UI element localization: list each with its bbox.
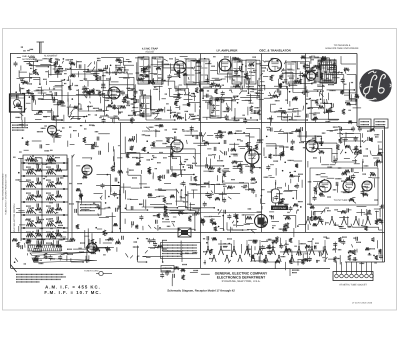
svg-text:ELECTRONICS DEPARTMENT: ELECTRONICS DEPARTMENT <box>217 276 266 280</box>
component value labels mid band <box>152 157 155 158</box>
power input components <box>317 84 322 86</box>
metal tube socket pins <box>306 218 309 225</box>
svg-text:Schematic Diagram, Receptor Mo: Schematic Diagram, Receptor Model 17 thr… <box>167 289 235 293</box>
wire right main bus <box>384 127 386 263</box>
rectifier tube dark anode <box>258 218 265 225</box>
transformer T10 <box>140 96 151 116</box>
transformer T4 <box>199 59 209 84</box>
bottom left corner wiring <box>15 258 18 262</box>
transformer T9 sound <box>210 98 221 118</box>
svg-text:SYRACUSE, NEW YORK, U.S.A.: SYRACUSE, NEW YORK, U.S.A. <box>222 280 261 283</box>
tone control components <box>148 239 152 241</box>
wire upper inner h1 <box>11 95 121 97</box>
tube V3 2nd IF <box>219 59 231 71</box>
tube V9 rectifier <box>255 215 268 228</box>
AM loop antenna <box>28 245 61 251</box>
oscillator section label box <box>11 125 14 126</box>
tube V5 converter <box>82 165 92 175</box>
svg-text:ANTENNA: ANTENNA <box>22 58 34 61</box>
IF strip wiring <box>134 84 136 102</box>
transformer T5 <box>232 60 242 84</box>
sync separator components <box>249 136 254 138</box>
bottom section wiring <box>218 243 232 245</box>
svg-text:AT METAL TUBE SOCKET: AT METAL TUBE SOCKET <box>339 284 367 287</box>
antenna stage wiring <box>29 65 55 67</box>
fine tuning wiring <box>97 173 111 175</box>
power transformer hatched core <box>320 60 336 83</box>
fine print block <box>15 274 18 275</box>
RF stage wiring <box>104 72 124 74</box>
loop label blob <box>34 258 39 262</box>
wire left frame bus <box>10 53 12 268</box>
wire top frame bus <box>11 53 358 55</box>
oscillator wiring <box>320 64 334 66</box>
tube socket contact row <box>206 248 209 255</box>
interlock box <box>161 266 174 273</box>
AGC line components <box>171 129 174 130</box>
AM loop stage components <box>49 236 51 240</box>
wire B+ distribution bus <box>11 232 385 234</box>
lower band wiring <box>231 228 233 230</box>
transformer T6 <box>246 60 256 84</box>
frame corner diagonal <box>11 265 17 273</box>
wire right upper frame bus <box>356 54 358 127</box>
svg-text:GENERATOR: GENERATOR <box>182 130 198 133</box>
under frame label row <box>32 59 35 60</box>
antenna lead-in <box>39 42 41 54</box>
transformer T7 <box>286 62 296 84</box>
tuner box <box>10 94 25 112</box>
component value labels top band <box>60 105 63 106</box>
svg-text:I.F. AMPLIFIER: I.F. AMPLIFIER <box>217 49 239 53</box>
lower middle components <box>200 220 204 222</box>
loop antenna lead upper <box>30 252 95 256</box>
transformer T3 <box>186 59 196 84</box>
sync stage wiring <box>124 137 126 153</box>
2nd IF wiring <box>202 88 204 98</box>
terminal box A <box>359 119 371 128</box>
tuner cord plug <box>99 271 103 275</box>
ladder outer rail <box>71 155 73 241</box>
component value labels bottom band <box>49 258 52 259</box>
wire mid horizontal x125-200 <box>121 153 201 155</box>
svg-text:F.M. I.F. = 10.7 MC.: F.M. I.F. = 10.7 MC. <box>44 290 101 295</box>
wire vertical bus x305 <box>305 54 307 233</box>
wire vertical bus x200 <box>200 54 202 269</box>
wire right inner bus <box>382 130 384 262</box>
audio stage wiring <box>266 145 283 147</box>
tube V12 AF <box>48 126 57 135</box>
svg-text:TUNER CORD: TUNER CORD <box>84 270 99 273</box>
interconnect plug strip <box>333 272 373 281</box>
oscillator stage components <box>278 91 280 95</box>
svg-text:LT-2176 CODE 2520: LT-2176 CODE 2520 <box>352 302 373 305</box>
ladder header box <box>23 155 67 170</box>
tube V11 tuner osc <box>87 243 97 253</box>
svg-text:HIGH VOLTAGE ENCLOSURE: HIGH VOLTAGE ENCLOSURE <box>325 47 359 50</box>
wire upper inner h2 <box>201 88 306 90</box>
transformer T1 <box>138 57 149 84</box>
tube V4 oscillator-translator <box>269 59 282 72</box>
electrolytic capacitor C60 <box>272 189 280 203</box>
svg-text:ALIGNMENT: ALIGNMENT <box>44 55 58 58</box>
wire mid horizontal lower <box>121 212 262 214</box>
ladder right rail <box>67 158 69 241</box>
wire bottom frame bus <box>11 268 331 270</box>
antenna input stage components <box>53 115 56 116</box>
wire right shelf <box>357 126 385 128</box>
deflection yoke box <box>310 168 378 205</box>
tube V2 IF amplifier <box>174 61 186 73</box>
upper left margin parts <box>18 210 24 212</box>
svg-text:TUBE LAYOUT SHOWN FROM BOTTOM: TUBE LAYOUT SHOWN FROM BOTTOM <box>5 174 8 215</box>
interlock components <box>181 268 186 271</box>
fine tuning right components <box>121 186 131 188</box>
GE monogram logo <box>359 69 391 101</box>
bandswitch contact components <box>204 260 206 265</box>
fine tuning components <box>76 183 79 184</box>
ladder mid rail <box>41 158 43 241</box>
tube V10 detector <box>307 72 316 81</box>
output socket wiring <box>353 250 356 255</box>
separator label row <box>88 125 91 126</box>
wire bottom-right return <box>345 261 385 263</box>
phase splitter components <box>289 172 291 174</box>
2nd IF / detector stage components <box>247 100 250 101</box>
terminal box B <box>374 119 388 128</box>
IF strip stage components <box>179 89 182 90</box>
channel selector switch ladder <box>21 162 68 164</box>
wire vertical bus x120 <box>120 123 122 233</box>
svg-text:CONVERTER: CONVERTER <box>142 130 158 133</box>
tube V1 RF amplifier <box>108 87 120 99</box>
ladder left rail <box>20 158 22 241</box>
video stage components <box>181 189 183 191</box>
label 1000 peak <box>271 206 288 211</box>
tube V8 audio output <box>306 140 318 152</box>
wire IF section separator bus <box>11 122 358 124</box>
fine tuning box <box>78 202 101 215</box>
RF amplifier stage components <box>126 101 128 105</box>
second contact row <box>212 256 214 262</box>
wire vertical bus x261 <box>261 54 263 233</box>
tube V7 sync separator <box>245 150 259 164</box>
label ant terminal <box>26 50 29 51</box>
deflection components <box>324 209 326 213</box>
loop antenna lead lower <box>32 258 97 263</box>
svg-text:1000 PEAK: 1000 PEAK <box>273 207 287 210</box>
power transformer T20 crossed <box>178 228 191 237</box>
svg-text:A.M. I.F. = 455 KC.: A.M. I.F. = 455 KC. <box>45 285 101 290</box>
svg-text:R.F. AMPLIFIER: R.F. AMPLIFIER <box>106 71 129 75</box>
transformer T8 <box>318 60 334 82</box>
svg-text:ADJUST: ADJUST <box>145 50 155 53</box>
B plus label <box>291 270 294 271</box>
service note box <box>161 243 201 259</box>
svg-text:VHF SELECTOR SWITCH: VHF SELECTOR SWITCH <box>13 203 16 232</box>
transformer T2 <box>152 57 163 84</box>
component value labels ladder <box>31 195 34 196</box>
tube V6 sound IF <box>171 140 183 152</box>
svg-text:ALL VOLTAGES MEASURED: ALL VOLTAGES MEASURED <box>2 173 5 200</box>
audio output components <box>374 162 376 166</box>
svg-text:OSC. & TRANSLATOR: OSC. & TRANSLATOR <box>259 49 291 53</box>
mixer grid components <box>98 133 106 135</box>
yoke box interior components <box>337 184 339 192</box>
